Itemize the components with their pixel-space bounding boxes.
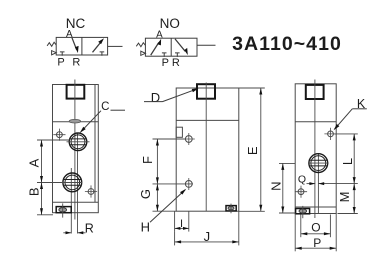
svg-text:O: O <box>311 221 320 235</box>
centerline right view <box>314 80 316 219</box>
svg-text:F: F <box>140 156 155 164</box>
outlet line NC <box>108 45 123 47</box>
cell divider NC <box>81 37 83 55</box>
leader C <box>80 101 125 133</box>
gasket ellipse left view <box>69 119 80 123</box>
dimension P <box>295 214 336 252</box>
return spring NC <box>47 42 56 46</box>
svg-text:E: E <box>245 146 260 155</box>
return spring NO <box>136 43 145 47</box>
flow arrow NO right cell (A blocked path) <box>175 39 185 51</box>
valve symbol NO (3/2 normally-open) <box>136 16 215 69</box>
side notch middle view <box>176 127 182 137</box>
svg-text:3A110~410: 3A110~410 <box>232 33 342 55</box>
svg-text:A: A <box>27 158 42 167</box>
leader K <box>334 97 367 130</box>
blocked port T right cell (NO) <box>175 53 180 57</box>
svg-text:H: H <box>141 219 150 234</box>
leader H <box>141 189 187 235</box>
top boss middle view <box>197 84 215 99</box>
svg-text:A: A <box>156 29 163 40</box>
port circle upper (C) <box>69 133 87 151</box>
cell divider NO <box>170 38 172 56</box>
top boss right view <box>306 85 324 99</box>
mounting hole upper-left <box>57 132 63 138</box>
dimension J <box>175 211 239 245</box>
valve body box NC <box>56 37 107 55</box>
pilot actuator triangle NC <box>52 51 57 55</box>
svg-text:B: B <box>27 187 42 196</box>
flow arrow NC right cell (P to outlet) <box>93 41 102 52</box>
svg-text:P: P <box>57 57 64 69</box>
blocked port T left cell (NO) <box>162 53 167 57</box>
dimension G <box>138 184 176 211</box>
leader D <box>144 88 199 105</box>
base line right view <box>295 206 336 208</box>
flow arrow NC left cell (A blocked path) <box>72 38 77 50</box>
dimension B <box>27 183 53 215</box>
mounting hole Q <box>298 189 304 195</box>
svg-text:R: R <box>85 221 94 235</box>
svg-text:N: N <box>268 182 283 191</box>
svg-text:NO: NO <box>160 16 180 31</box>
top boss left view <box>67 85 85 99</box>
outlet line NO <box>197 44 216 46</box>
bottom port left view <box>56 207 71 213</box>
dimension E <box>239 88 265 211</box>
svg-text:P: P <box>313 236 321 250</box>
port circle lower <box>63 173 82 192</box>
slot line right <box>77 133 79 234</box>
svg-text:G: G <box>138 189 153 199</box>
bottom port right view <box>296 209 310 214</box>
inner face line left view <box>94 85 96 203</box>
dimension F <box>140 139 193 184</box>
centerline middle view <box>205 83 207 212</box>
svg-text:M: M <box>337 192 352 203</box>
svg-text:I: I <box>180 218 183 230</box>
svg-text:D: D <box>151 90 160 105</box>
svg-text:R: R <box>72 57 80 69</box>
flow arrow NO left cell (P to A) <box>151 43 159 56</box>
blocked port T at R (NC) <box>100 52 105 56</box>
gasket line middle view <box>176 119 239 121</box>
pilot actuator triangle NO <box>141 51 146 55</box>
svg-text:L: L <box>340 158 355 165</box>
dimension I <box>175 211 189 231</box>
dimension M <box>337 184 358 214</box>
svg-text:J: J <box>204 229 211 244</box>
body outline middle view <box>176 88 239 211</box>
valve body box NO <box>145 38 197 56</box>
dimension Q <box>298 173 358 185</box>
dimension A <box>27 140 82 183</box>
mounting hole K <box>328 131 334 137</box>
valve symbol NC (3/2 normally-closed) <box>47 16 122 69</box>
mounting hole lower-right <box>88 189 94 195</box>
dimension O <box>301 215 331 238</box>
svg-text:R: R <box>172 57 180 69</box>
gasket line right view <box>295 121 336 123</box>
slot line right view <box>317 154 319 214</box>
dimension R <box>63 221 94 235</box>
body outline left view <box>53 85 99 213</box>
body outline right view <box>295 84 336 214</box>
svg-text:P: P <box>162 57 169 69</box>
centerline left view <box>74 80 76 220</box>
base line left view <box>53 201 99 203</box>
port circle right view <box>309 154 328 173</box>
gasket line left view <box>53 121 99 123</box>
mounting hole lower (middle, H) <box>185 181 192 188</box>
svg-text:C: C <box>101 101 109 113</box>
mounting hole upper (middle) <box>185 136 192 143</box>
dimension L <box>335 134 358 184</box>
svg-text:Q: Q <box>298 173 306 185</box>
blocked port T at P (NC) <box>60 52 65 56</box>
slot line left <box>70 168 72 234</box>
bottom port middle view <box>226 206 236 211</box>
dimension N <box>268 163 295 213</box>
